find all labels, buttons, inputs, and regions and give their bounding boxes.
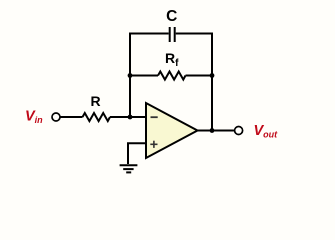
junction dot: right loop / Rf [210, 73, 215, 78]
input terminal (open circle) [52, 113, 60, 121]
wire: input lead to resistor R [60, 116, 82, 118]
junction dot: left loop / Rf [128, 73, 133, 78]
junction dot: output node (right loop meets output wire) [210, 128, 215, 133]
wire: resistor R to inverting input [110, 116, 146, 118]
wire: left vertical feedback branch [129, 33, 131, 118]
output terminal (open circle) [235, 127, 243, 135]
svg-text:C: C [166, 8, 177, 25]
svg-text:Rf: Rf [165, 50, 179, 69]
wire: Rf branch right lead [186, 75, 213, 77]
wire: top feedback branch, right segment (capacitor to right loop corner) [176, 33, 212, 35]
wire: top feedback branch, left segment (from left loop corner to capacitor) [130, 33, 169, 35]
wire: right vertical feedback branch [211, 33, 213, 131]
op-amp U1 (triangle) [146, 103, 198, 158]
svg-text:Vin: Vin [25, 109, 43, 125]
ground [120, 165, 138, 172]
resistor R (zigzag) [83, 113, 111, 121]
wire: non-inverting input to ground [128, 143, 146, 164]
svg-text:Vout: Vout [254, 123, 279, 139]
junction dot: input node (left loop meets input wire) [128, 115, 133, 120]
svg-text:R: R [91, 93, 101, 109]
wire: Rf branch left lead [130, 75, 158, 77]
wire: op-amp output [198, 130, 235, 132]
op-amp non-inverting input marker (plus) [150, 141, 157, 148]
op-amp inverting input marker (minus) [151, 116, 158, 118]
resistor Rf (zigzag) [158, 72, 186, 80]
capacitor C (plates) [170, 27, 175, 42]
